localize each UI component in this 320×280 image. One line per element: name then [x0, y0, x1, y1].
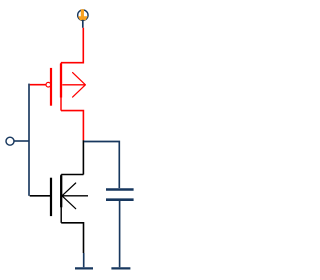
bottom lead: [119, 201, 121, 267]
transistor Q1 PMOS: [30, 63, 86, 111]
input port (circle terminal): [6, 137, 14, 145]
body arrow chevron: [73, 73, 86, 98]
gate bubble: [46, 82, 51, 87]
ground port under NMOS (bar): [75, 253, 93, 268]
gate bar: [50, 68, 52, 106]
power port VCC (circle with orange arrow): [78, 9, 88, 28]
source lead down: [61, 223, 83, 253]
top plate: [106, 188, 134, 191]
channel column (thin leads): [60, 63, 62, 111]
wire PMOS drain down to output node: [61, 111, 83, 141]
transistor Q2 NMOS: [30, 175, 88, 254]
channel bar (thick): [60, 64, 62, 98]
gate lead: [30, 195, 50, 197]
wire VCC to PMOS source: [61, 28, 83, 63]
wire input to gate bus: [14, 140, 29, 142]
channel column (thin leads): [60, 175, 62, 223]
gate bar: [50, 178, 52, 216]
body arrow chevron: [62, 183, 76, 209]
wire output node down to NMOS drain: [82, 140, 84, 174]
body arrow shaft: [62, 195, 88, 197]
capacitor C1: [106, 190, 134, 268]
body arrow shaft: [62, 84, 85, 86]
bottom plate: [106, 198, 134, 201]
channel bar (thick): [60, 175, 62, 207]
gate lead: [30, 84, 46, 86]
drain lead (top): [61, 174, 83, 176]
wire output node to capacitor: [84, 142, 119, 189]
gate bus wire (vertical): [28, 84, 30, 196]
ground port under capacitor (bar): [111, 267, 130, 269]
